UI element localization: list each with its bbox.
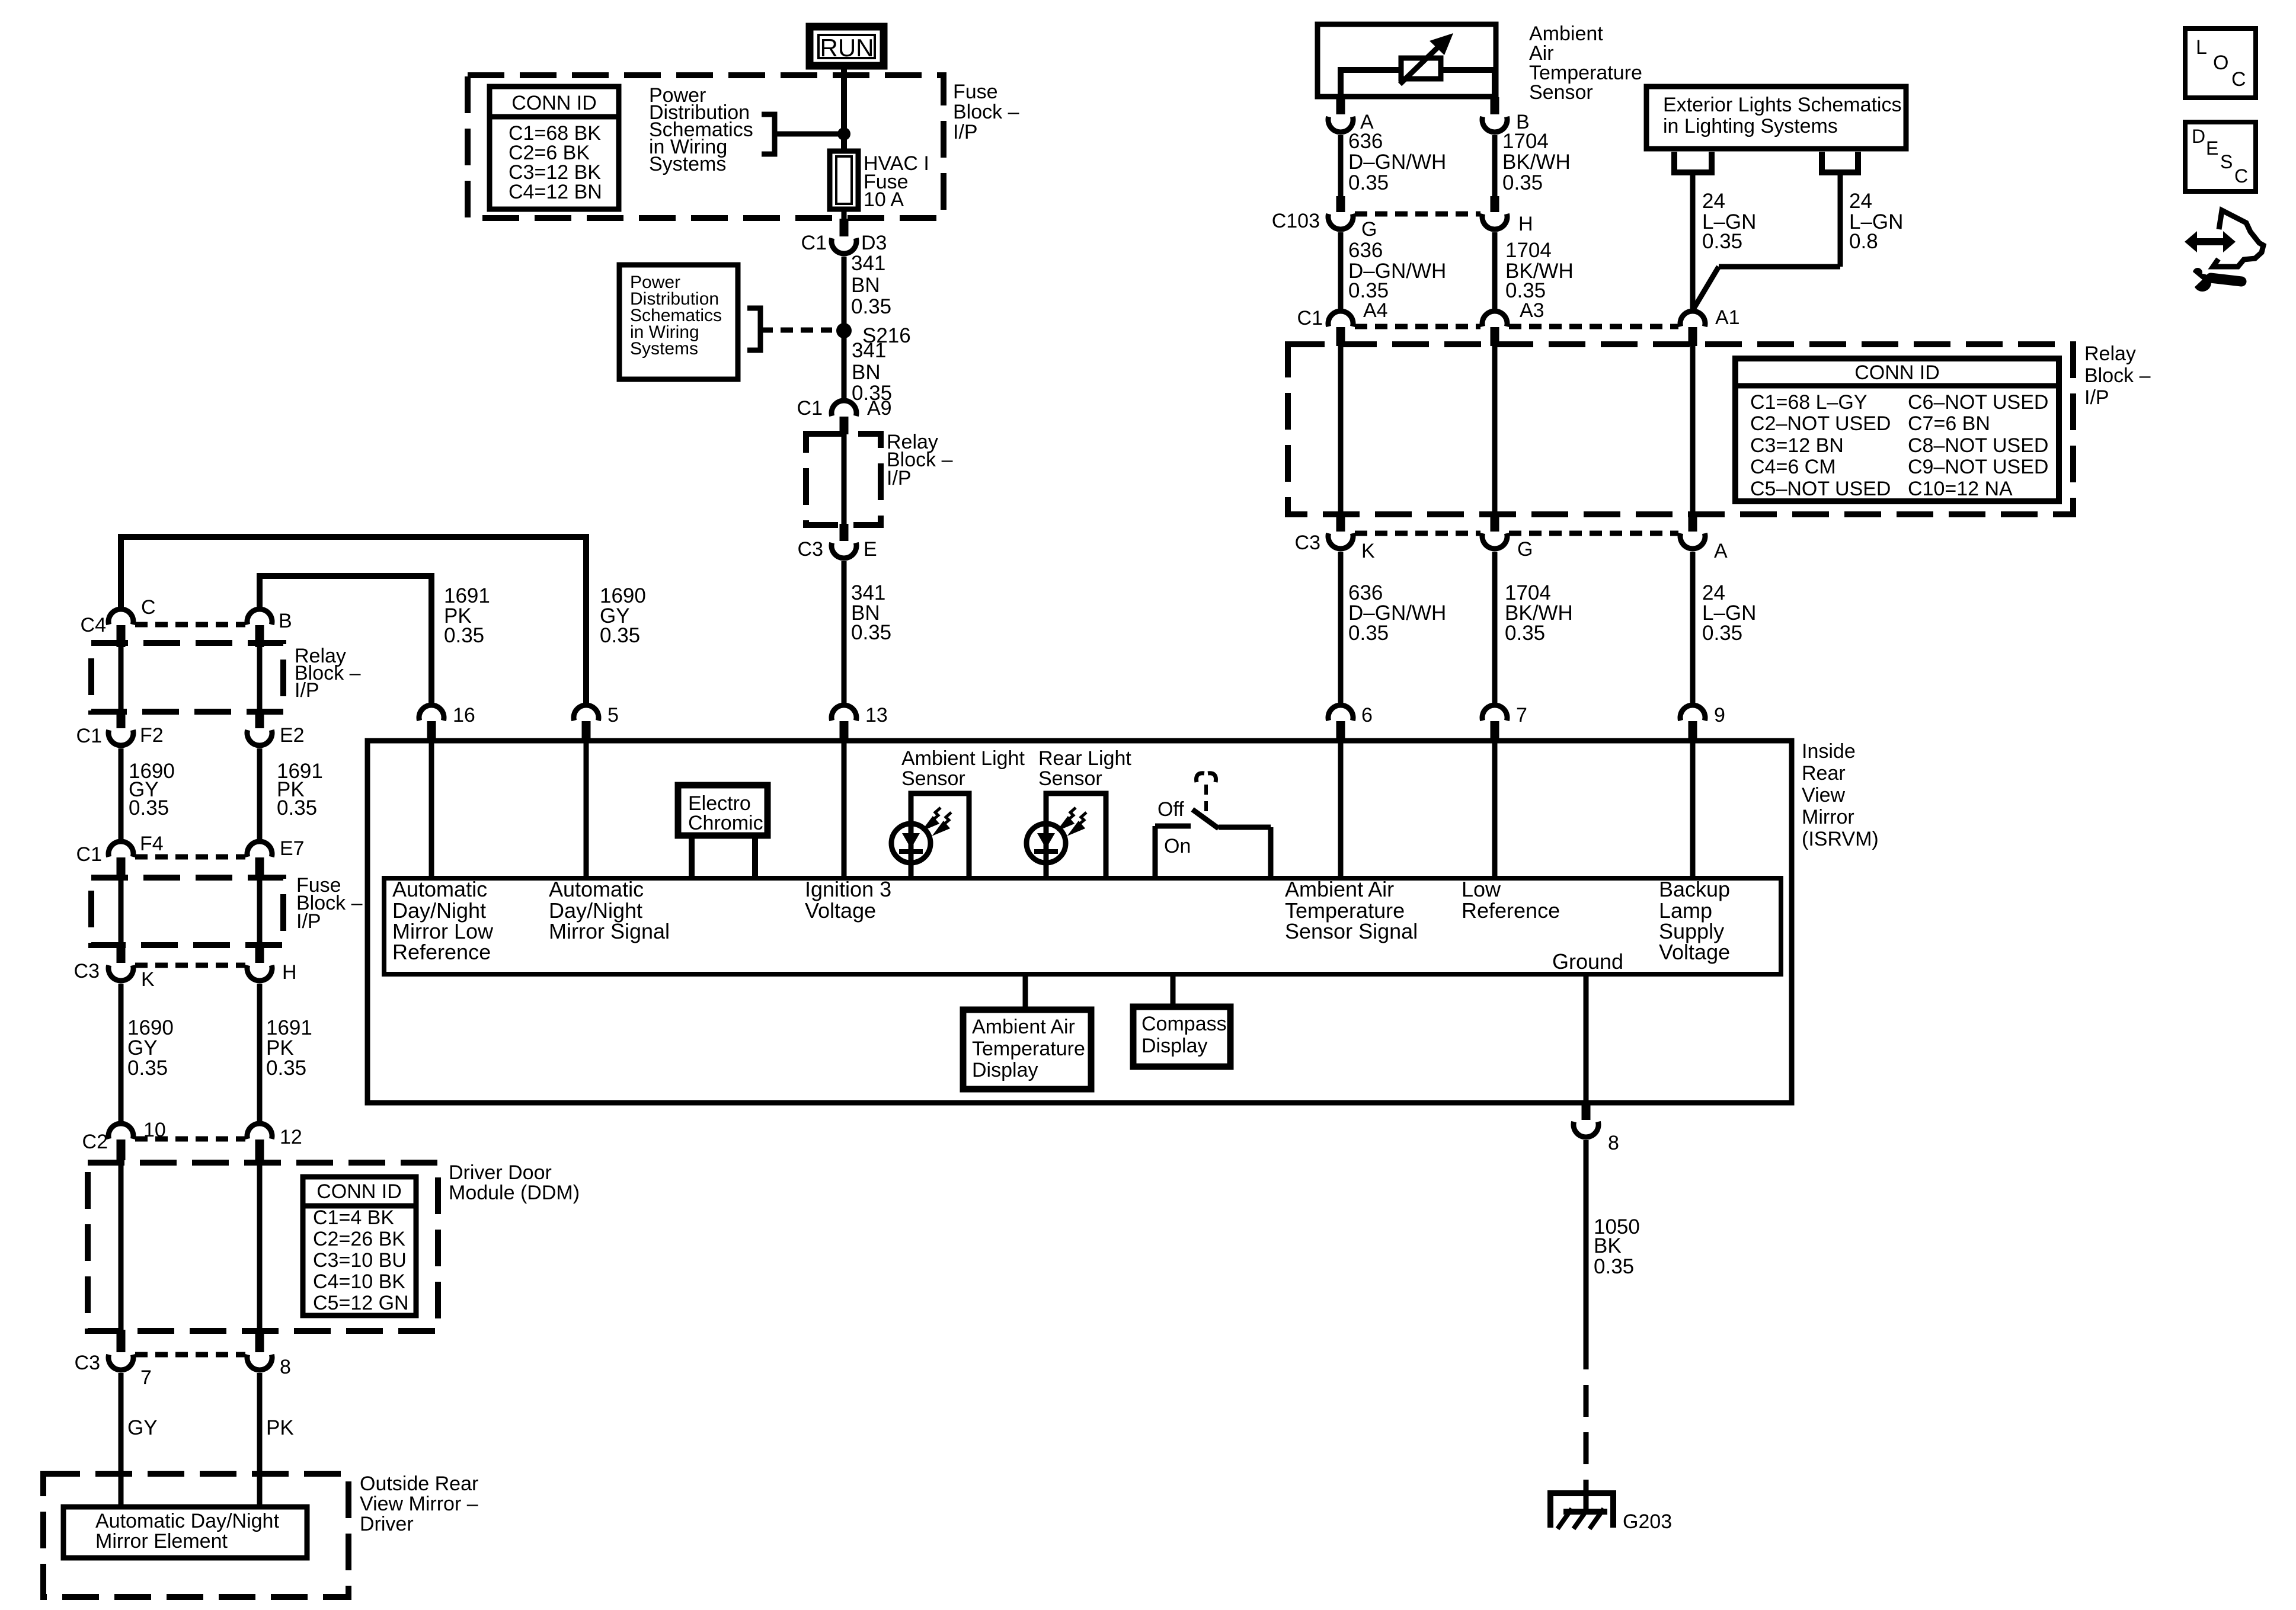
svg-text:8: 8 bbox=[280, 1356, 291, 1378]
wire A4 through relay block bbox=[1338, 346, 1344, 516]
outside rear view mirror dashed box bbox=[43, 1474, 348, 1597]
pin 9 wire inside bbox=[1690, 741, 1696, 878]
wire label 24 L-GN 0.35 bbox=[1702, 190, 1756, 253]
connector row C103 dashed line bbox=[1355, 212, 1480, 217]
pin 16 dome bbox=[419, 705, 444, 721]
connector C3-K cup (left) bbox=[108, 965, 133, 981]
wire F2 to F4 bbox=[119, 748, 124, 839]
wire through relay block bbox=[842, 434, 847, 524]
pin 13 stub bbox=[840, 721, 849, 741]
svg-text:C5–NOT USED: C5–NOT USED bbox=[1750, 478, 1891, 500]
bracket from power distribution box bbox=[747, 308, 760, 350]
bold stub above A (row3) bbox=[1689, 514, 1697, 532]
svg-text:C: C bbox=[2234, 165, 2248, 187]
connector row C4 dashed line bbox=[135, 622, 245, 628]
connector 8 cup (left) bbox=[247, 1355, 272, 1370]
connector H cup (left) bbox=[247, 965, 272, 981]
svg-text:C9–NOT USED: C9–NOT USED bbox=[1908, 456, 2048, 478]
svg-text:I/P: I/P bbox=[2084, 386, 2109, 409]
svg-text:Exterior Lights Schematics: Exterior Lights Schematics bbox=[1663, 94, 1902, 116]
wire label 1704 BK/WH 0.35 (H) bbox=[1505, 239, 1574, 302]
switch actuator dashed link bbox=[1204, 785, 1208, 816]
svg-text:13: 13 bbox=[865, 704, 888, 726]
svg-text:I/P: I/P bbox=[887, 467, 912, 489]
svg-text:0.35: 0.35 bbox=[851, 295, 891, 318]
CONN ID table (relay block) bbox=[1735, 359, 2059, 501]
svg-text:BN: BN bbox=[851, 274, 880, 297]
bold stub above K bbox=[1336, 514, 1345, 532]
svg-text:341: 341 bbox=[851, 252, 885, 275]
connector C1-D3 cup bbox=[832, 238, 856, 254]
svg-text:S: S bbox=[2220, 151, 2233, 172]
connector C2-10 dome bbox=[108, 1124, 133, 1139]
connector B dome bbox=[247, 609, 272, 625]
wire E7 through fuse block left bbox=[257, 878, 263, 946]
svg-text:C7=6 BN: C7=6 BN bbox=[1908, 412, 1990, 435]
wire A1 through relay block bbox=[1690, 346, 1696, 516]
wire F4 through fuse block left bbox=[119, 878, 124, 946]
svg-text:Systems: Systems bbox=[630, 339, 698, 359]
rear light sensor photodiode bbox=[1027, 824, 1066, 863]
svg-text:K: K bbox=[1361, 540, 1375, 562]
wire bracket to junction bbox=[775, 132, 844, 137]
svg-text:24: 24 bbox=[1849, 190, 1872, 213]
variable resistor element bbox=[1401, 58, 1441, 79]
connector C3-E cup bbox=[832, 543, 856, 558]
pin 6 stub bbox=[1336, 721, 1345, 741]
wire A to pin 9 bbox=[1690, 552, 1696, 703]
CONN ID table (fuse block) bbox=[490, 87, 619, 209]
compass display box bbox=[1133, 1007, 1230, 1067]
wire C through relay block left bbox=[119, 647, 124, 711]
svg-text:5: 5 bbox=[607, 704, 619, 726]
svg-text:(ISRVM): (ISRVM) bbox=[1802, 828, 1879, 850]
svg-text:A4: A4 bbox=[1363, 299, 1388, 322]
svg-text:C6–NOT USED: C6–NOT USED bbox=[1908, 391, 2048, 414]
bold stub above E2 bbox=[255, 711, 264, 728]
pin 7 stub bbox=[1491, 721, 1499, 741]
connector C4-C dome bbox=[108, 609, 133, 625]
wire K to pin 6 bbox=[1338, 552, 1344, 703]
wire label 1690 GY 0.35 (F2) bbox=[129, 760, 175, 820]
svg-text:7: 7 bbox=[140, 1366, 152, 1389]
svg-text:L: L bbox=[2196, 36, 2207, 59]
svg-text:Block –: Block – bbox=[953, 101, 1019, 123]
wire 8 to ground bbox=[1584, 1140, 1589, 1369]
wire E to pin 13 bbox=[842, 561, 847, 703]
bold stub above G bbox=[1336, 196, 1345, 212]
wire label 1704 BK/WH 0.35 (B) bbox=[1502, 130, 1571, 194]
relay block I/P dashed box (left) bbox=[91, 643, 283, 712]
bold stub above K (left) bbox=[117, 945, 126, 963]
LOC icon bbox=[2185, 28, 2256, 98]
svg-text:10: 10 bbox=[143, 1119, 166, 1141]
connector A cup bbox=[1328, 117, 1353, 132]
DESC icon bbox=[2185, 122, 2256, 191]
svg-text:Ambient Air: Ambient Air bbox=[972, 1016, 1075, 1038]
wire label 1690 GY 0.35 (K left) bbox=[127, 1016, 174, 1080]
wire A3 through relay block bbox=[1492, 346, 1498, 516]
svg-text:CONN ID: CONN ID bbox=[1854, 361, 1940, 384]
bold stub below A4 bbox=[1336, 327, 1345, 346]
dashed wire to G203 bbox=[1584, 1385, 1589, 1512]
bold stub above connector 8 bbox=[1582, 1103, 1591, 1120]
pin 7 wire inside bbox=[1492, 741, 1498, 878]
svg-text:Fuse: Fuse bbox=[953, 81, 998, 103]
pin 6 dome bbox=[1328, 705, 1353, 721]
wire label 341 BN 0.35 (below S216) bbox=[852, 339, 892, 405]
svg-text:C1: C1 bbox=[801, 232, 827, 254]
electro chromic box bbox=[678, 785, 768, 836]
connector row C1 dashed line bbox=[1355, 324, 1480, 329]
svg-text:F2: F2 bbox=[140, 724, 164, 747]
svg-text:Block –: Block – bbox=[2084, 364, 2151, 387]
label Power Distribution Schematics in Wiring Systems (top) bbox=[649, 84, 753, 175]
svg-text:C1: C1 bbox=[797, 397, 823, 420]
pin 13 dome bbox=[832, 705, 856, 721]
svg-text:0.35: 0.35 bbox=[277, 796, 317, 820]
svg-text:Ambient Light: Ambient Light bbox=[901, 747, 1025, 770]
wire label 341 BN 0.35 (to pin 13) bbox=[851, 581, 891, 644]
svg-text:Temperature: Temperature bbox=[972, 1038, 1085, 1060]
ground symbol G203 bbox=[1550, 1493, 1613, 1529]
svg-text:C3: C3 bbox=[1295, 532, 1320, 554]
svg-text:Sensor: Sensor bbox=[1038, 767, 1102, 790]
svg-text:Driver Door: Driver Door bbox=[449, 1161, 552, 1184]
svg-text:Low: Low bbox=[1462, 877, 1501, 901]
connector E7 dome bbox=[247, 841, 272, 857]
svg-text:RUN: RUN bbox=[820, 34, 874, 62]
connector row C3 7/8 dashed line bbox=[135, 1352, 245, 1358]
pin 9 stub bbox=[1689, 721, 1697, 741]
svg-text:E: E bbox=[2206, 137, 2218, 159]
wire S216 to A9 bbox=[842, 331, 847, 399]
connector B cup bbox=[1482, 117, 1507, 132]
svg-text:K: K bbox=[141, 968, 155, 991]
wire diagonal to A1 bbox=[1693, 267, 1719, 309]
svg-text:Backup: Backup bbox=[1659, 877, 1730, 901]
bold stub above 8 (left) bbox=[255, 1330, 264, 1352]
svg-text:1704: 1704 bbox=[1502, 130, 1549, 153]
svg-text:0.35: 0.35 bbox=[1505, 622, 1545, 645]
label Ambient Light Sensor bbox=[901, 747, 1025, 790]
svg-text:C10=12 NA: C10=12 NA bbox=[1908, 478, 2013, 500]
off/on switch bbox=[1155, 809, 1271, 878]
wire label 24 L-GN 0.8 bbox=[1849, 190, 1903, 253]
svg-text:A: A bbox=[1714, 540, 1728, 562]
connector C1-A9 dome bbox=[832, 401, 856, 416]
svg-text:C1: C1 bbox=[76, 725, 102, 747]
wire left leg down to A1 bbox=[1690, 172, 1696, 311]
svg-text:0.35: 0.35 bbox=[1702, 230, 1742, 253]
svg-text:C2=26 BK: C2=26 BK bbox=[313, 1228, 405, 1250]
svg-text:1704: 1704 bbox=[1505, 239, 1552, 262]
pin 5 wire inside bbox=[584, 741, 589, 878]
svg-text:CONN ID: CONN ID bbox=[316, 1180, 402, 1203]
svg-text:Sensor: Sensor bbox=[901, 767, 965, 790]
ambient light sensor photodiode bbox=[891, 824, 930, 863]
svg-text:16: 16 bbox=[453, 704, 475, 726]
variable resistor arrow bbox=[1400, 45, 1440, 84]
label Relay Block - I/P (center) bbox=[887, 431, 953, 489]
svg-text:Automatic: Automatic bbox=[392, 877, 487, 901]
connector H cup bbox=[1482, 214, 1507, 229]
svg-text:C5=12 GN: C5=12 GN bbox=[313, 1292, 409, 1314]
wire H to A3 bbox=[1492, 232, 1498, 309]
leg to compass display bbox=[1171, 974, 1176, 1007]
pin 5 dome bbox=[574, 705, 599, 721]
svg-text:6: 6 bbox=[1361, 704, 1373, 726]
svg-text:0.35: 0.35 bbox=[1594, 1255, 1634, 1278]
label Fuse Block - I/P bbox=[953, 81, 1019, 143]
wire G to pin 7 bbox=[1492, 552, 1498, 703]
svg-text:0.35: 0.35 bbox=[851, 621, 891, 644]
svg-text:0.35: 0.35 bbox=[1702, 622, 1742, 645]
bold stub below A9 bbox=[840, 417, 849, 434]
label Driver Door Module (DDM) bbox=[449, 1161, 580, 1204]
connector C3-7 cup bbox=[108, 1355, 133, 1370]
svg-text:E7: E7 bbox=[280, 837, 305, 860]
connector row C2 dashed line bbox=[135, 1137, 245, 1142]
pin 9 dome bbox=[1680, 705, 1705, 721]
svg-text:C2: C2 bbox=[82, 1131, 108, 1153]
svg-text:in Lighting Systems: in Lighting Systems bbox=[1663, 115, 1838, 137]
svg-text:Ignition 3: Ignition 3 bbox=[805, 877, 891, 901]
wire label 341 BN 0.35 bbox=[851, 252, 891, 318]
switch actuator hooks bbox=[1197, 773, 1216, 782]
wire horizontal joining legs bbox=[1719, 264, 1840, 270]
connector A1 dome bbox=[1680, 311, 1705, 327]
svg-text:C1: C1 bbox=[76, 843, 102, 866]
wire E2 to E7 bbox=[257, 748, 263, 839]
svg-text:Chromic: Chromic bbox=[688, 812, 763, 834]
connector C1-F4 dome bbox=[108, 841, 133, 857]
bold stub below 10 bbox=[117, 1140, 126, 1160]
connector A cup (row3) bbox=[1680, 533, 1705, 549]
bold stub below A3 bbox=[1491, 327, 1499, 346]
wire label 1691 PK 0.35 (E2) bbox=[277, 760, 323, 820]
left leg bracket bbox=[1674, 152, 1712, 172]
wire B to C103 bbox=[1492, 135, 1498, 198]
wire label 636 D-GN/WH 0.35 (G) bbox=[1348, 239, 1446, 302]
wire fuse to connector D3 bbox=[842, 209, 847, 220]
connector row C3 dashed line bbox=[1355, 531, 1480, 536]
svg-text:O: O bbox=[2213, 52, 2228, 74]
wire label 1704 BK/WH 0.35 (G) bbox=[1505, 581, 1573, 645]
wire RUN box to fuse bbox=[841, 69, 847, 153]
svg-text:341: 341 bbox=[852, 339, 886, 362]
svg-text:0.35: 0.35 bbox=[127, 1057, 168, 1080]
rear light sensor arrows bbox=[1061, 808, 1086, 833]
ambient light sensor outline bbox=[911, 793, 969, 878]
connector C1-F2 cup bbox=[108, 730, 133, 745]
svg-text:0.35: 0.35 bbox=[1348, 171, 1389, 194]
svg-text:BK: BK bbox=[1594, 1234, 1622, 1257]
svg-text:Voltage: Voltage bbox=[1659, 940, 1730, 964]
right leg bracket bbox=[1822, 152, 1858, 172]
dashed link to splice S216 bbox=[760, 328, 832, 333]
svg-text:B: B bbox=[279, 610, 292, 632]
bracket from Power Distribution label bbox=[762, 114, 775, 154]
svg-text:0.35: 0.35 bbox=[600, 624, 640, 647]
svg-text:Display: Display bbox=[972, 1059, 1038, 1081]
svg-text:Display: Display bbox=[1141, 1035, 1207, 1057]
ignition switch RUN box bbox=[810, 27, 884, 66]
svg-text:PK: PK bbox=[266, 1416, 294, 1439]
svg-text:G: G bbox=[1517, 538, 1533, 561]
svg-text:F4: F4 bbox=[140, 833, 164, 855]
wire 12 through DDM bbox=[257, 1160, 263, 1331]
svg-text:C: C bbox=[141, 596, 156, 619]
svg-text:C3=10 BU: C3=10 BU bbox=[313, 1249, 407, 1272]
connector E2 cup bbox=[247, 730, 272, 745]
svg-text:C4=10 BK: C4=10 BK bbox=[313, 1270, 405, 1293]
sensor internal wire bbox=[1341, 70, 1495, 97]
svg-text:Mirror Element: Mirror Element bbox=[95, 1530, 228, 1553]
svg-text:Rear Light: Rear Light bbox=[1038, 747, 1131, 770]
ambient light sensor arrows bbox=[926, 808, 951, 833]
svg-text:E2: E2 bbox=[280, 724, 305, 747]
inner pin strip box bbox=[384, 878, 1781, 974]
svg-text:Off: Off bbox=[1157, 798, 1184, 821]
wire G to A4 bbox=[1338, 232, 1344, 309]
connector row K/H dashed line bbox=[135, 963, 245, 968]
svg-text:0.8: 0.8 bbox=[1849, 230, 1878, 253]
wire D3 to S216 bbox=[842, 257, 847, 331]
bold stub below A1 bbox=[1689, 327, 1697, 346]
svg-text:0.35: 0.35 bbox=[444, 624, 484, 647]
svg-text:D–GN/WH: D–GN/WH bbox=[1348, 151, 1446, 174]
connector row F4/E7 dashed line bbox=[135, 854, 245, 860]
ambient air temperature sensor box bbox=[1318, 24, 1496, 97]
svg-text:C2–NOT USED: C2–NOT USED bbox=[1750, 412, 1891, 435]
label HVAC I Fuse 10 A bbox=[864, 152, 929, 211]
ISRVM outer box bbox=[367, 741, 1792, 1103]
exterior lights schematics box bbox=[1646, 87, 1906, 149]
wire K to 10 bbox=[119, 984, 124, 1121]
svg-text:C: C bbox=[2231, 68, 2246, 91]
svg-text:636: 636 bbox=[1348, 239, 1383, 262]
wire A to C103 bbox=[1338, 135, 1344, 198]
pin 6 wire inside bbox=[1338, 741, 1344, 878]
svg-text:C3: C3 bbox=[75, 1352, 100, 1374]
label Ignition 3 Voltage bbox=[805, 877, 891, 923]
vehicle service icon (arrow, car, wrench) bbox=[2185, 210, 2263, 292]
svg-text:10 A: 10 A bbox=[864, 188, 904, 211]
pin 16 wire inside bbox=[429, 741, 434, 878]
pin 16 stub bbox=[427, 721, 436, 741]
bold stub above E bbox=[840, 524, 849, 541]
bold stub above H (left) bbox=[255, 945, 264, 963]
leg to ambient air temperature display bbox=[1023, 974, 1028, 1010]
wire label 1691 PK 0.35 (H left) bbox=[266, 1016, 312, 1080]
bold stub below 12 bbox=[255, 1140, 264, 1160]
bold stub above D3 bbox=[840, 219, 849, 236]
bold stub above A bbox=[1336, 97, 1345, 114]
svg-text:24: 24 bbox=[1702, 190, 1725, 213]
svg-text:C1=4 BK: C1=4 BK bbox=[313, 1206, 394, 1229]
bold stub below E7 bbox=[255, 857, 264, 878]
svg-text:0.35: 0.35 bbox=[266, 1057, 306, 1080]
svg-text:C3: C3 bbox=[798, 538, 823, 561]
wire label 1691 PK 0.35 (pin 16) bbox=[444, 584, 490, 647]
connector A3 dome bbox=[1482, 311, 1507, 327]
junction dot on RUN feed bbox=[837, 127, 850, 140]
bold stub below C bbox=[117, 625, 126, 647]
svg-text:12: 12 bbox=[280, 1126, 302, 1148]
wire right leg down bbox=[1838, 172, 1843, 267]
wire 8 to mirror element bbox=[257, 1373, 263, 1507]
label Ambient Air Temperature Sensor Signal bbox=[1285, 877, 1418, 943]
svg-text:Rear: Rear bbox=[1802, 762, 1846, 785]
label Automatic Day/Night Mirror Signal bbox=[549, 877, 670, 943]
svg-text:H: H bbox=[1518, 213, 1533, 235]
svg-text:BK/WH: BK/WH bbox=[1502, 151, 1571, 174]
svg-text:G: G bbox=[1361, 218, 1377, 241]
wire label 24 L-GN 0.35 (A) bbox=[1702, 581, 1756, 645]
wire 7 to mirror element bbox=[119, 1373, 124, 1507]
svg-text:Voltage: Voltage bbox=[805, 898, 876, 923]
svg-text:CONN ID: CONN ID bbox=[511, 92, 597, 114]
svg-text:C3: C3 bbox=[74, 960, 100, 982]
label Relay Block - I/P (right) bbox=[2084, 343, 2151, 409]
svg-text:C1=68 L–GY: C1=68 L–GY bbox=[1750, 391, 1868, 414]
svg-text:C1: C1 bbox=[1297, 307, 1323, 329]
fuse block I/P dashed box bbox=[468, 75, 944, 218]
label Ambient Air Temperature Sensor bbox=[1529, 23, 1642, 104]
svg-text:Relay: Relay bbox=[2084, 343, 2136, 365]
svg-text:GY: GY bbox=[127, 1416, 158, 1439]
svg-text:D: D bbox=[2192, 126, 2205, 147]
svg-text:Reference: Reference bbox=[1462, 898, 1560, 923]
driver door module dashed box bbox=[88, 1163, 438, 1331]
svg-text:Driver: Driver bbox=[360, 1513, 414, 1535]
svg-text:BN: BN bbox=[852, 361, 881, 384]
svg-text:Ambient Air: Ambient Air bbox=[1285, 877, 1394, 901]
svg-text:C3=12 BN: C3=12 BN bbox=[1750, 434, 1844, 457]
connector C103-G cup bbox=[1328, 214, 1353, 229]
label Automatic Day/Night Mirror Low Reference bbox=[392, 877, 494, 964]
svg-text:9: 9 bbox=[1714, 704, 1725, 726]
bold stub above 7 (left) bbox=[117, 1330, 126, 1352]
ambient air temperature display box bbox=[963, 1010, 1091, 1089]
wire C column to pin 5 bbox=[121, 537, 586, 703]
svg-text:Mirror: Mirror bbox=[1802, 806, 1854, 828]
fuse block I/P dashed box (left) bbox=[91, 878, 283, 945]
ground wire inside ISRVM bbox=[1584, 974, 1589, 1103]
svg-text:C4=12 BN: C4=12 BN bbox=[509, 181, 602, 203]
svg-text:Inside: Inside bbox=[1802, 740, 1856, 763]
wire label 636 D-GN/WH 0.35 (K) bbox=[1348, 581, 1446, 645]
bold stub below B bbox=[255, 625, 264, 647]
svg-text:Module (DDM): Module (DDM) bbox=[449, 1182, 580, 1204]
svg-text:H: H bbox=[282, 961, 297, 984]
electro chromic legs bbox=[689, 836, 695, 878]
svg-text:0.35: 0.35 bbox=[1502, 171, 1543, 194]
wire label 1690 GY 0.35 (pin 5) bbox=[600, 584, 646, 647]
svg-text:On: On bbox=[1164, 835, 1191, 857]
svg-text:E: E bbox=[864, 538, 877, 561]
label Backup Lamp Supply Voltage bbox=[1659, 877, 1730, 964]
wire H to 12 bbox=[257, 984, 263, 1121]
wire label 636 D-GN/WH 0.35 (A) bbox=[1348, 130, 1446, 194]
bold stub above B bbox=[1491, 97, 1499, 114]
svg-text:0.35: 0.35 bbox=[1348, 622, 1389, 645]
svg-text:View: View bbox=[1802, 784, 1846, 806]
svg-text:C103: C103 bbox=[1272, 210, 1320, 232]
svg-text:8: 8 bbox=[1608, 1132, 1619, 1154]
wire label 1050 BK 0.35 bbox=[1594, 1215, 1640, 1278]
